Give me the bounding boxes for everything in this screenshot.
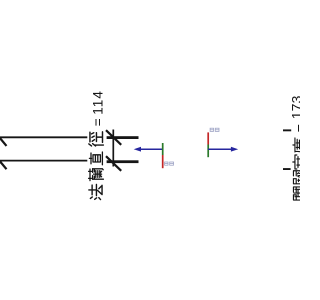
dimension text: 法蘭直徑 = 114 (rotated, drawn as vector strokes)	[89, 90, 106, 200]
dimension tick at left end of top line	[0, 130, 7, 146]
svg-text:114: 114	[91, 90, 106, 115]
glyph 寬	[293, 155, 309, 169]
dimension tick at bottom witness point	[106, 156, 121, 171]
connector 1 label (tiny grey annotation)	[165, 162, 174, 165]
text "=" of right dimension	[292, 124, 308, 132]
connector 2 X axis (red segment)	[207, 132, 209, 144]
dimension tick at top witness point	[106, 130, 121, 145]
wire: bottom pipe outline line	[0, 160, 87, 162]
connector 2 flow arrow (blue, pointing right)	[208, 147, 238, 152]
glyph 蘭	[89, 169, 104, 181]
connector 1 flow arrow (blue, pointing left)	[134, 147, 163, 152]
glyph 閥	[293, 168, 309, 183]
connector 1 X axis (red segment)	[162, 155, 164, 168]
connector 1 Y axis (green segment)	[162, 143, 164, 155]
svg-text:=: =	[91, 118, 106, 126]
wire: top pipe outline line	[0, 136, 87, 138]
svg-text:=: =	[292, 124, 300, 132]
text "=" of left dimension	[91, 118, 106, 126]
witness dash upper (right dimension)	[283, 129, 291, 131]
text "114" of left dimension	[91, 90, 106, 115]
connector 2 label (tiny grey annotation)	[210, 128, 219, 131]
dimension text: 凡缐寬度 = 173 (rotated, clipped at right edge)	[289, 95, 310, 200]
witness dash lower (right dimension)	[283, 168, 291, 170]
flange body top edge (thick bar)	[107, 136, 139, 139]
flange body bottom edge (thick bar)	[107, 160, 139, 163]
svg-text:173: 173	[289, 95, 301, 119]
dimension line: vertical flange-diameter dimension	[112, 130, 114, 167]
text "173" of right dimension	[289, 95, 305, 119]
dimension tick at left end of bottom line	[0, 154, 7, 170]
connector 2 Y axis (green segment)	[207, 145, 209, 158]
glyph 閘	[293, 185, 309, 200]
glyph 法	[89, 184, 102, 199]
glyph 度	[293, 138, 309, 153]
glyph 直	[89, 152, 102, 165]
glyph 徑	[89, 132, 104, 146]
